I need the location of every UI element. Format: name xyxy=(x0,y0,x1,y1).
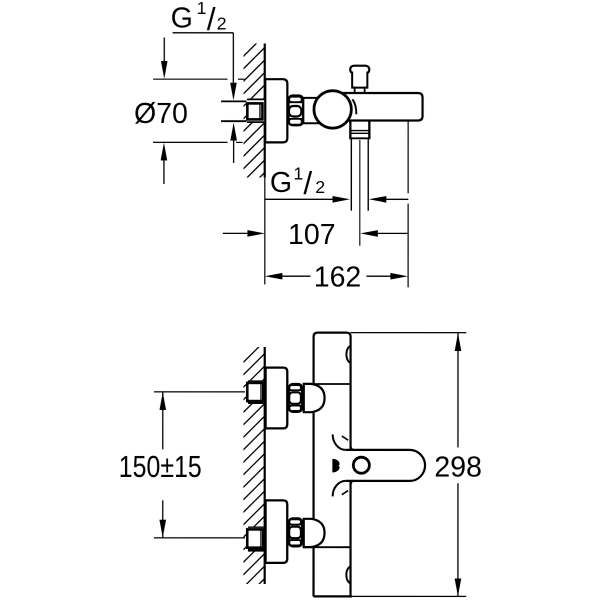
svg-text:107: 107 xyxy=(288,219,336,251)
body silhouette arc right of handle xyxy=(352,99,356,114)
outlet neck xyxy=(354,87,356,94)
aerator xyxy=(353,457,369,473)
hex nut bottom (front) xyxy=(289,518,302,546)
162 dimension xyxy=(265,273,283,280)
union nut on supply pipe xyxy=(247,99,265,123)
G1/2 leader bracket xyxy=(173,32,234,34)
spout flare bottom xyxy=(333,481,346,497)
connector cylinder (side view) xyxy=(303,98,320,123)
escutcheon top (front) xyxy=(266,368,288,429)
svg-text:G: G xyxy=(171,2,193,34)
side knob top xyxy=(346,346,351,363)
diverter ring below body xyxy=(349,121,351,139)
svg-text:150±15: 150±15 xyxy=(119,450,202,484)
svg-text:2: 2 xyxy=(315,177,325,197)
extension line, escutcheon top xyxy=(153,78,227,80)
wall hatching (side view) xyxy=(238,35,265,199)
298 dimension line xyxy=(457,333,459,447)
body edge corner into spout xyxy=(351,447,354,450)
flare tick bottom xyxy=(342,491,348,495)
shower outlet cap (top) xyxy=(350,66,369,74)
svg-text:2: 2 xyxy=(217,13,227,33)
escutcheon bottom (front) xyxy=(266,500,288,563)
body section line top xyxy=(304,383,351,385)
hose centerline xyxy=(359,140,361,246)
svg-text:/: / xyxy=(303,165,312,201)
hex nut top (front) xyxy=(289,384,302,412)
S-union cone top xyxy=(304,384,325,412)
150 dimension line xyxy=(162,392,164,449)
150 +-15 extension lines xyxy=(154,391,245,393)
298 extension lines xyxy=(351,332,467,334)
arrow up to escutcheon bottom line xyxy=(161,143,168,161)
thermostat handle (side view circle) xyxy=(314,91,351,128)
supply pipe (side view) xyxy=(221,100,248,102)
hex connection nut (side view) xyxy=(289,95,304,125)
right extension line from body xyxy=(407,121,409,193)
wall escutcheon (side view) xyxy=(265,79,287,142)
hose outline lines xyxy=(350,138,352,210)
svg-text:1: 1 xyxy=(293,163,303,183)
body section line bottom xyxy=(304,546,351,548)
arrow down to escutcheon top line xyxy=(161,61,168,79)
faucet body (side view) xyxy=(340,93,423,121)
svg-text:1: 1 xyxy=(197,0,207,18)
svg-text:162: 162 xyxy=(314,261,362,293)
side knob bottom xyxy=(346,566,351,583)
arrow up to pipe bottom xyxy=(230,123,237,141)
body column outline xyxy=(314,333,351,597)
supply nut top (front) xyxy=(247,380,265,404)
wall hatching (front view) xyxy=(238,341,265,600)
G1/2 hose dimension line xyxy=(265,198,333,200)
svg-text:/: / xyxy=(207,1,216,37)
arrow down to pipe top xyxy=(230,83,237,101)
wall face line (front view) xyxy=(264,347,266,584)
S-union cone bottom xyxy=(304,519,325,547)
svg-text:Ø70: Ø70 xyxy=(134,98,188,130)
extension line, escutcheon bottom xyxy=(153,141,228,143)
svg-text:298: 298 xyxy=(434,451,482,483)
diverter knob mark xyxy=(332,459,339,473)
spout flare top xyxy=(333,434,346,450)
body column fill xyxy=(314,333,351,597)
shower outlet block xyxy=(352,72,367,88)
svg-text:G: G xyxy=(270,167,292,199)
wall face extension line xyxy=(264,176,266,284)
107 dimension xyxy=(223,232,249,234)
wall face line (side view) xyxy=(264,43,266,177)
supply nut bottom (front) xyxy=(247,526,265,551)
flare tick top xyxy=(342,436,348,440)
spout capsule xyxy=(346,450,425,481)
